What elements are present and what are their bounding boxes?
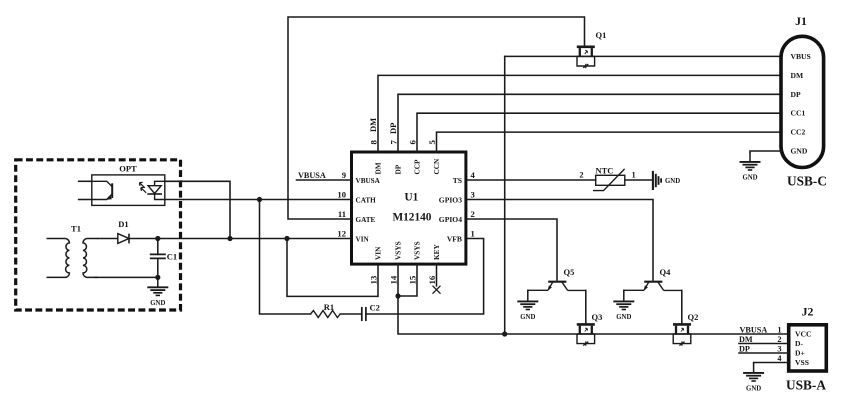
node: C1 top junction [155, 236, 160, 241]
ground at J2 [743, 363, 764, 393]
capacitor C1 [150, 239, 177, 278]
svg-text:Q3: Q3 [592, 312, 603, 322]
svg-text:OPT: OPT [119, 164, 137, 174]
svg-text:GND: GND [791, 147, 808, 156]
svg-text:U1: U1 [405, 192, 419, 204]
wire: Q5 emitter to ground [527, 290, 529, 291]
U1 left pin labels [356, 177, 381, 244]
transistor Q1 [577, 30, 607, 68]
svg-text:J2: J2 [802, 305, 814, 319]
svg-text:2: 2 [471, 209, 475, 219]
transistor Q4 [624, 267, 682, 291]
svg-text:8: 8 [369, 140, 379, 145]
wire: VSYS down to bus [398, 296, 787, 334]
svg-text:VBUS: VBUS [791, 52, 811, 61]
wire: GATE net up-over to Q1 gate [288, 17, 585, 219]
node: VSYS junction [395, 293, 400, 298]
wire: OPT bottom-right to U1 CATH [165, 199, 350, 201]
wire: Q4 collector to Q2 gate [681, 290, 683, 323]
U1 right pin labels [439, 176, 462, 244]
node VBUSA net label at pin 9 [297, 171, 352, 180]
ground under Q5 [517, 292, 538, 322]
svg-text:14: 14 [389, 275, 399, 284]
wire: pins 14/15 join [398, 264, 417, 296]
wire: pin13 loop from VIN junction [287, 239, 378, 297]
wire: Q1 source down to VBUSA bus [504, 56, 506, 334]
svg-text:NTC: NTC [596, 166, 614, 176]
connector J1 USB-C [781, 14, 827, 189]
U1 right pin numbers [471, 170, 476, 239]
svg-text:DP: DP [393, 164, 402, 174]
U1 left pin numbers [337, 170, 346, 239]
svg-text:GATE: GATE [356, 216, 376, 224]
svg-text:C2: C2 [370, 303, 380, 313]
dashed isolation box [16, 160, 181, 310]
wire: VBUS from USB-C through Q1 [505, 55, 781, 57]
svg-text:DM: DM [791, 71, 804, 80]
svg-text:1: 1 [777, 326, 781, 335]
svg-text:D-: D- [795, 339, 803, 348]
node: CATH junction [257, 197, 262, 202]
svg-text:16: 16 [427, 275, 437, 284]
svg-text:3: 3 [471, 189, 475, 199]
diode D1 [118, 219, 129, 243]
svg-text:J1: J1 [795, 14, 807, 28]
ground at J1 [740, 152, 761, 182]
phototransistor of OPT [92, 181, 112, 186]
transistor Q2 [673, 312, 698, 346]
svg-text:VIN: VIN [356, 235, 370, 243]
wire: R1 to C2 [340, 313, 361, 315]
wire: OPT top-right to VIN net [165, 181, 230, 238]
svg-text:7: 7 [389, 140, 399, 145]
wire: CC2 from USB-C to pin 5 [437, 132, 782, 152]
svg-text:CC1: CC1 [791, 109, 806, 118]
wire: CATH branch down to R1 [260, 200, 311, 315]
svg-text:10: 10 [337, 189, 346, 199]
svg-text:VBUSA: VBUSA [356, 177, 381, 185]
node: OPT drop junction [227, 236, 232, 241]
svg-text:VSYS: VSYS [393, 241, 402, 260]
svg-text:4: 4 [471, 170, 476, 180]
svg-text:CATH: CATH [356, 196, 377, 204]
svg-text:DP: DP [388, 123, 398, 134]
svg-text:5: 5 [427, 140, 437, 145]
U1 bottom pin numbers [369, 275, 438, 284]
thermistor NTC [579, 166, 635, 191]
wire: CC1 from USB-C to pin 6 [417, 113, 781, 152]
wire: D1 cathode to U1 VIN pin 12 [129, 238, 350, 240]
svg-text:1: 1 [471, 228, 475, 238]
resistor R1 [311, 302, 341, 318]
svg-text:Q2: Q2 [688, 312, 699, 322]
wire: NTC to ground [625, 179, 653, 181]
wire: TS to NTC [467, 179, 595, 181]
svg-text:USB-C: USB-C [787, 174, 827, 189]
node: C1 bottom junction [155, 275, 160, 280]
transformer T1 [47, 224, 99, 278]
wire: J2 VSS to ground [754, 362, 789, 365]
LED of OPT [155, 181, 165, 185]
wire: DP net stub to J2 [739, 345, 789, 354]
svg-text:DP: DP [791, 90, 801, 99]
svg-text:VBUSA: VBUSA [740, 326, 768, 335]
svg-text:15: 15 [408, 275, 418, 284]
wire: DM net stub to J2 [739, 335, 789, 344]
svg-text:VSS: VSS [795, 358, 809, 367]
wire: Q4 emitter to ground [623, 290, 625, 291]
svg-text:1: 1 [632, 170, 636, 179]
svg-text:GND: GND [665, 178, 680, 185]
transistor Q5 [528, 267, 586, 291]
svg-text:CCP: CCP [412, 159, 421, 175]
wire: DP from USB-C to pin 7 [398, 94, 781, 152]
ground under C1 [147, 277, 168, 307]
svg-text:GPIO3: GPIO3 [439, 195, 462, 204]
ground under Q4 [613, 292, 634, 322]
connector J2 USB-A [786, 305, 826, 393]
wire: J1 GND pin to ground [750, 151, 781, 152]
svg-text:Q4: Q4 [660, 267, 672, 277]
svg-text:C1: C1 [167, 252, 177, 262]
svg-text:DM: DM [373, 162, 382, 174]
node: bus junction with Q1 branch [502, 331, 507, 336]
svg-text:DM: DM [368, 118, 378, 132]
wire: T1 secondary bottom to C1 [95, 276, 158, 278]
svg-text:12: 12 [337, 228, 346, 238]
wire: GPIO4 to Q5 base [467, 219, 557, 280]
wire: U1 pin 16 stub [436, 264, 438, 286]
wire: OPT left stubs [79, 181, 92, 199]
capacitor C2 [362, 303, 380, 322]
wire: T1 secondary top to D1 anode [98, 238, 118, 240]
node: DP net label [388, 123, 398, 134]
svg-text:2: 2 [579, 170, 583, 179]
wire: C2 to VFB [366, 239, 484, 315]
svg-text:11: 11 [338, 209, 346, 219]
svg-text:VFB: VFB [447, 234, 462, 243]
light arrows of OPT [139, 182, 144, 188]
svg-text:TS: TS [453, 176, 462, 185]
svg-text:Q1: Q1 [596, 30, 607, 40]
svg-text:T1: T1 [71, 224, 81, 234]
optocoupler OPT [92, 164, 165, 206]
node: VIN/pin13 junction [284, 236, 289, 241]
svg-text:D+: D+ [795, 349, 805, 358]
svg-text:GPIO4: GPIO4 [439, 215, 462, 224]
svg-text:VBUSA: VBUSA [298, 171, 326, 180]
node: J2 pin numbers [777, 326, 782, 364]
svg-text:Q5: Q5 [564, 267, 575, 277]
svg-text:9: 9 [342, 170, 346, 180]
svg-text:VIN: VIN [373, 246, 382, 260]
IC U1 M12140 body [352, 152, 466, 264]
svg-text:M12140: M12140 [393, 212, 432, 224]
node: VBUSA net label at J2 [740, 326, 768, 335]
U1 top pin numbers [369, 140, 438, 145]
svg-text:KEY: KEY [432, 243, 441, 260]
svg-text:CCN: CCN [432, 158, 441, 175]
svg-text:VSYS: VSYS [412, 241, 421, 260]
U1 bottom pin labels [373, 241, 441, 260]
wire: GPIO3 to Q4 base [467, 200, 653, 281]
wire: Q5 collector to Q3 gate [585, 290, 587, 323]
wire: DM from USB-C to pin 8 [378, 75, 781, 152]
svg-text:6: 6 [408, 140, 418, 145]
svg-text:CC2: CC2 [791, 128, 806, 137]
svg-text:13: 13 [369, 275, 379, 284]
ground sideways at NTC [653, 171, 680, 190]
node: DM net label [368, 118, 378, 132]
transistor Q3 [577, 312, 603, 346]
U1 top pin labels [373, 158, 441, 175]
svg-text:DP: DP [739, 345, 750, 354]
svg-text:DM: DM [739, 335, 753, 344]
svg-text:VCC: VCC [795, 330, 811, 339]
svg-text:USB-A: USB-A [786, 378, 826, 393]
svg-text:D1: D1 [118, 219, 128, 229]
node: no-connect X on pin 16 [433, 286, 441, 294]
